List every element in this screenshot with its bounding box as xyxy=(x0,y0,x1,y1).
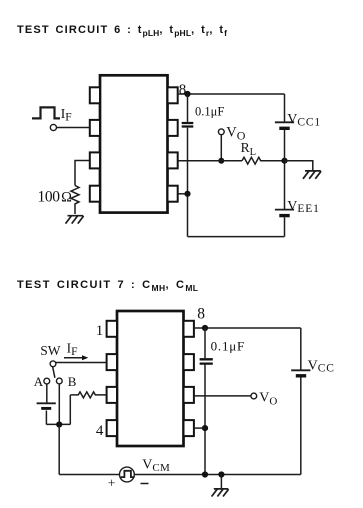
svg-text:1: 1 xyxy=(96,323,104,339)
svg-text:+: + xyxy=(108,475,116,490)
wire pin 5 stub xyxy=(178,193,188,195)
U1 pin 2 xyxy=(90,120,100,136)
U1 pin 7 xyxy=(168,120,178,136)
ground (mid right) xyxy=(303,171,321,179)
svg-text:100Ω: 100Ω xyxy=(38,189,73,206)
resistor 100 ohm xyxy=(71,186,79,215)
junction node VO row xyxy=(218,158,224,164)
junction node cap top (U2) xyxy=(202,325,208,331)
U2 pin 4 xyxy=(107,420,117,436)
junction node at cap top xyxy=(184,91,190,97)
resistor RL xyxy=(242,157,285,164)
svg-text:VCM: VCM xyxy=(142,458,170,474)
battery VCC1 xyxy=(275,122,294,128)
svg-text:8: 8 xyxy=(197,305,205,322)
terminal A circle xyxy=(44,378,50,384)
battery VCC (U2) xyxy=(291,370,310,376)
U2 pin 8 xyxy=(184,321,194,337)
U2 pin 1 xyxy=(107,321,117,337)
switch pivot terminal xyxy=(50,361,56,367)
junction node pin5 (U2) xyxy=(202,425,208,431)
ground (100 ohm) xyxy=(66,216,84,224)
svg-text:VEE1: VEE1 xyxy=(287,199,319,215)
bottom rail circuit 6 xyxy=(188,236,285,238)
svg-text:SW: SW xyxy=(40,343,61,358)
battery lower lead xyxy=(45,411,47,425)
op-amp U1 body (DIP-8) xyxy=(100,75,168,212)
right rail lower xyxy=(284,217,286,236)
capacitor C 0.1uF plates xyxy=(182,123,194,127)
terminal VO circle (U2) xyxy=(251,393,257,399)
wire junction down to VCM rail xyxy=(58,425,60,475)
pulse waveform symbol xyxy=(32,107,60,118)
terminal B circle xyxy=(56,378,62,384)
capacitor lead upper xyxy=(187,94,189,122)
U1 pin 8 xyxy=(168,87,178,103)
U2 pin 3 xyxy=(107,387,117,403)
wire VO down to pin6 row xyxy=(220,135,222,161)
U2 pin 2 xyxy=(107,354,117,370)
U2 pin 5 xyxy=(184,420,194,436)
capacitor lead lower / vertical wire to bottom rail xyxy=(187,128,189,237)
wire pin 6 row xyxy=(178,160,242,162)
junction node cap bottom rail xyxy=(202,471,208,477)
label minus xyxy=(141,483,149,485)
terminal VO circle xyxy=(218,129,224,135)
U1 pin 4 xyxy=(90,186,100,202)
U1 pin 6 xyxy=(168,152,178,168)
right rail upper (to VCC1) xyxy=(284,94,286,122)
switch blade xyxy=(53,367,55,378)
right rail upper (U2) xyxy=(300,328,302,370)
U1 pin 5 xyxy=(168,186,178,202)
svg-text:A: A xyxy=(34,374,44,389)
source VCM xyxy=(120,467,135,482)
junction node ground tap xyxy=(218,471,224,477)
current arrow xyxy=(64,355,88,360)
junction node right rail mid xyxy=(281,158,287,164)
wire B down xyxy=(58,384,60,425)
resistor (series to pin 3) xyxy=(70,392,106,398)
U2 pin 6 xyxy=(184,387,194,403)
svg-text:4: 4 xyxy=(96,423,104,439)
svg-text:0.1μF: 0.1μF xyxy=(195,105,224,119)
op-amp U2 body (DIP-8) xyxy=(117,311,184,446)
right rail lower (U2) xyxy=(300,378,302,475)
capacitor C 0.1uF plates (U2) xyxy=(200,359,213,363)
wire pin 3 to 100 ohm resistor xyxy=(75,161,90,186)
U1 pin 1 xyxy=(90,87,100,103)
svg-text:B: B xyxy=(68,374,77,389)
capacitor lead upper (U2) xyxy=(204,328,206,358)
right rail between VCC1 and node xyxy=(284,130,286,209)
svg-text:VCC: VCC xyxy=(308,358,335,374)
VCM rail right xyxy=(134,474,300,476)
svg-text:0.1μF: 0.1μF xyxy=(211,339,245,354)
svg-text:RL: RL xyxy=(241,140,256,158)
U2 pin 7 xyxy=(184,354,194,370)
svg-text:IF: IF xyxy=(67,341,78,358)
input terminal circle xyxy=(50,124,56,130)
wire pivot to pin 2 xyxy=(56,362,107,364)
svg-text:VCC1: VCC1 xyxy=(287,112,321,128)
svg-text:TEST CIRCUIT 6 : tpLH, tpHL, t: TEST CIRCUIT 6 : tpLH, tpHL, tr, tf xyxy=(17,24,227,38)
U1 pin 3 xyxy=(90,152,100,168)
wire A to battery xyxy=(46,384,48,403)
ground lead (U2) xyxy=(220,475,222,489)
junction node pin 5 xyxy=(184,191,190,197)
svg-text:TEST CIRCUIT 7 : CMH, CML: TEST CIRCUIT 7 : CMH, CML xyxy=(17,279,198,293)
capacitor lead lower (U2) xyxy=(204,365,206,475)
junction node B bottom xyxy=(56,421,62,427)
wire pin 8 top rail (U2) xyxy=(194,327,301,329)
svg-text:IF: IF xyxy=(61,106,72,123)
bottom link wire xyxy=(46,423,70,425)
ground (bottom) xyxy=(212,489,229,497)
svg-text:VO: VO xyxy=(259,391,277,408)
battery VEE1 xyxy=(275,210,294,216)
VCM rail left xyxy=(59,474,119,476)
resistor lead up xyxy=(69,395,71,425)
wire pin 8 top rail xyxy=(178,93,285,95)
battery (A bias) xyxy=(37,403,56,408)
wire pin 6 to VO (U2) xyxy=(194,395,251,397)
wire to mid ground xyxy=(285,161,313,171)
wire input to pin 2 xyxy=(57,127,90,129)
wire pin 5 stub (U2) xyxy=(194,427,205,429)
